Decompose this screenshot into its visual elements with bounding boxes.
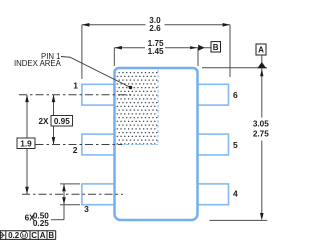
datum A triangle bbox=[257, 62, 266, 68]
dimension 1.9 bbox=[26, 95, 28, 195]
svg-text:M: M bbox=[22, 233, 27, 239]
dimension 3.0/2.6 line bbox=[82, 25, 230, 79]
pin 5 lead bbox=[197, 134, 228, 155]
svg-text:A: A bbox=[258, 46, 264, 55]
svg-text:B: B bbox=[213, 43, 219, 52]
pin 2 lead bbox=[82, 134, 115, 155]
node: leader dot bbox=[129, 86, 133, 90]
svg-text:2.6: 2.6 bbox=[149, 24, 161, 33]
svg-text:3: 3 bbox=[84, 204, 89, 214]
svg-text:INDEX AREA: INDEX AREA bbox=[14, 59, 62, 68]
dimension 6X 0.50/0.25 bbox=[51, 184, 80, 220]
svg-text:A: A bbox=[40, 231, 46, 240]
svg-text:3.05: 3.05 bbox=[253, 120, 269, 129]
svg-text:1.45: 1.45 bbox=[148, 47, 164, 56]
svg-text:2: 2 bbox=[73, 145, 78, 155]
wire: hatch bottom dashed boundary bbox=[116, 144, 158, 146]
svg-text:6: 6 bbox=[233, 90, 238, 100]
wire: pin3 centerline bbox=[22, 193, 123, 195]
datum A box bbox=[256, 44, 266, 55]
pin 1 lead bbox=[82, 84, 115, 105]
pin 6 lead bbox=[197, 84, 228, 105]
svg-text:6X: 6X bbox=[25, 214, 36, 223]
package body outline bbox=[115, 68, 198, 220]
svg-text:1: 1 bbox=[73, 81, 78, 91]
dimension 2X 0.95 bbox=[53, 95, 55, 145]
datum B box bbox=[211, 42, 221, 52]
dimension 1.75/1.45 line bbox=[114, 48, 211, 66]
svg-text:C: C bbox=[31, 231, 37, 240]
svg-text:2X: 2X bbox=[38, 117, 49, 126]
label 1.9 basic box bbox=[17, 138, 35, 149]
wire: pin1 index leader bbox=[61, 57, 131, 88]
pin 1 index area hatch bbox=[116, 70, 158, 145]
feature control frame: position 0.2 M C A B bbox=[0, 231, 56, 240]
svg-text:2.75: 2.75 bbox=[253, 130, 269, 139]
svg-text:0.2: 0.2 bbox=[8, 231, 20, 240]
datum B triangle bbox=[198, 45, 204, 51]
svg-text:0.95: 0.95 bbox=[54, 117, 70, 126]
svg-text:0.25: 0.25 bbox=[33, 219, 49, 228]
wire: pin2 centerline bbox=[19, 144, 122, 146]
svg-text:B: B bbox=[48, 231, 54, 240]
svg-text:5: 5 bbox=[233, 140, 238, 150]
svg-text:4: 4 bbox=[233, 188, 238, 198]
svg-text:1.9: 1.9 bbox=[20, 139, 32, 148]
label 2X 0.95 basic box bbox=[51, 116, 73, 127]
position symbol (clipped at left edge) bbox=[0, 231, 5, 239]
wire: pin1 centerline bbox=[19, 94, 131, 96]
wire: hatch right dashed boundary bbox=[157, 70, 159, 145]
pin 4 lead bbox=[197, 184, 228, 205]
pin 3 lead bbox=[82, 184, 115, 205]
dimension 3.05/2.75 vertical bbox=[202, 55, 267, 220]
